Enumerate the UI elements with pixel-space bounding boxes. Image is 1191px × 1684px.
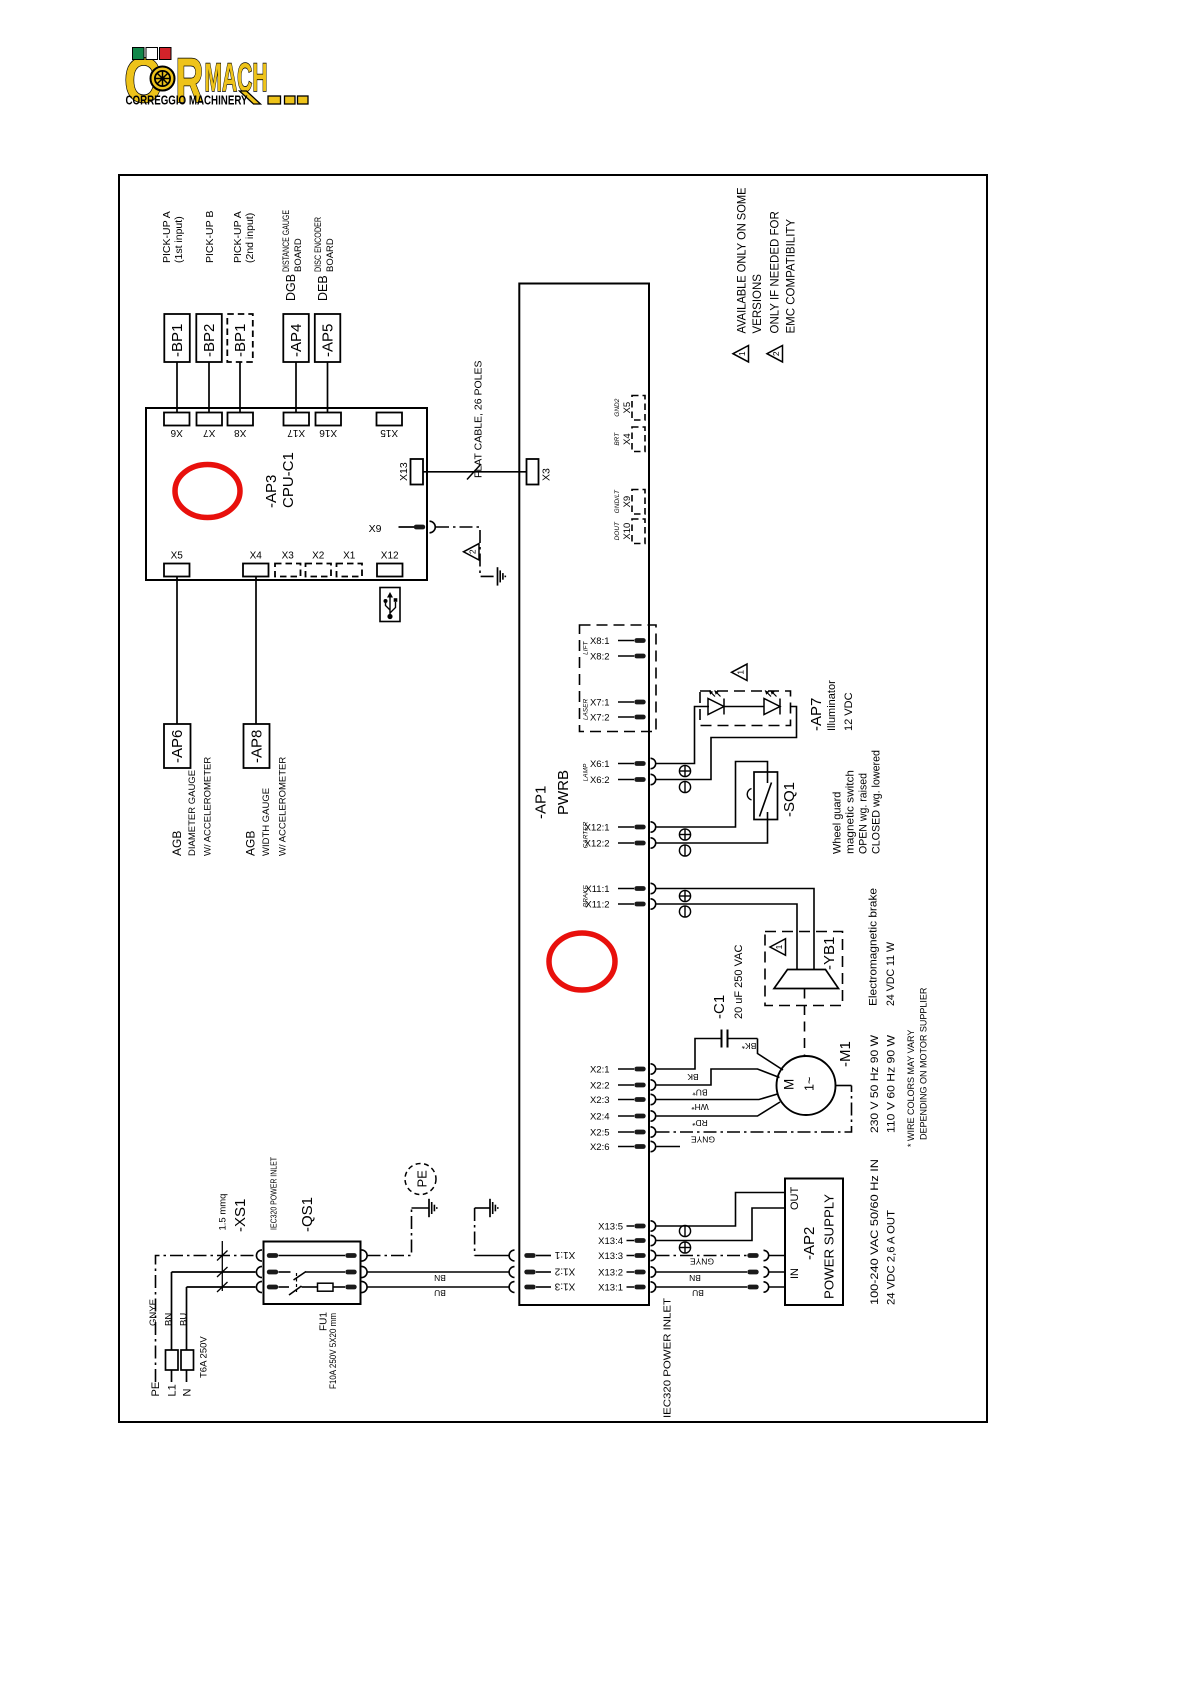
svg-text:24 VDC 2,6 A OUT: 24 VDC 2,6 A OUT <box>886 1210 898 1305</box>
svg-text:PICK-UP B: PICK-UP B <box>204 211 216 263</box>
svg-text:W/ ACCELEROMETER: W/ ACCELEROMETER <box>278 757 289 856</box>
svg-text:-M1: -M1 <box>837 1041 854 1067</box>
svg-text:BU: BU <box>179 1313 190 1326</box>
svg-text:GNYE: GNYE <box>148 1299 159 1326</box>
svg-text:PE: PE <box>150 1382 162 1397</box>
svg-text:DOUT: DOUT <box>614 521 621 540</box>
svg-text:PWRB: PWRB <box>555 770 572 815</box>
svg-text:X2:4: X2:4 <box>590 1111 610 1122</box>
svg-text:DISTANCE GAUGE: DISTANCE GAUGE <box>281 210 292 272</box>
svg-text:-AP7: -AP7 <box>808 698 825 731</box>
svg-text:LIFT: LIFT <box>582 640 589 654</box>
svg-text:-BP1: -BP1 <box>232 324 249 357</box>
svg-text:GNYE: GNYE <box>691 1134 715 1144</box>
svg-text:X12: X12 <box>381 551 399 562</box>
svg-text:X1:3: X1:3 <box>554 1280 575 1291</box>
svg-text:X9: X9 <box>369 523 382 535</box>
svg-text:BOARD: BOARD <box>293 238 304 272</box>
svg-text:BU: BU <box>692 1288 704 1298</box>
svg-text:(2nd input): (2nd input) <box>244 213 256 263</box>
svg-text:-AP8: -AP8 <box>249 730 266 763</box>
svg-text:BK*: BK* <box>741 1041 756 1051</box>
svg-text:magnetic switch: magnetic switch <box>845 770 857 854</box>
svg-text:X6: X6 <box>170 427 183 438</box>
svg-text:X7:2: X7:2 <box>590 712 610 723</box>
svg-text:2: 2 <box>467 549 477 554</box>
svg-text:IEC320 POWER INLET: IEC320 POWER INLET <box>663 1298 674 1418</box>
svg-text:F10A 250V 5X20 mm: F10A 250V 5X20 mm <box>328 1313 338 1389</box>
svg-text:-BP1: -BP1 <box>169 324 186 357</box>
svg-text:IN: IN <box>789 1268 801 1279</box>
svg-text:POWER SUPPLY: POWER SUPPLY <box>822 1194 837 1299</box>
svg-text:-C1: -C1 <box>711 995 728 1019</box>
svg-text:EMC COMPATIBILITY: EMC COMPATIBILITY <box>786 219 798 334</box>
svg-text:BN: BN <box>689 1273 701 1283</box>
svg-text:X7: X7 <box>203 427 216 438</box>
svg-text:1.5 mmq: 1.5 mmq <box>218 1194 229 1231</box>
svg-text:2: 2 <box>771 351 781 356</box>
svg-text:1: 1 <box>737 351 747 356</box>
svg-text:X13:5: X13:5 <box>598 1221 623 1232</box>
svg-text:DEB: DEB <box>316 275 330 301</box>
svg-text:(1st input): (1st input) <box>173 216 185 263</box>
svg-text:GND/LT: GND/LT <box>614 489 621 513</box>
svg-text:X1:2: X1:2 <box>554 1265 575 1276</box>
svg-text:M: M <box>782 1079 797 1090</box>
svg-text:BU: BU <box>434 1288 446 1298</box>
svg-text:X5: X5 <box>622 402 633 414</box>
svg-text:AVAILABLE ONLY ON SOME: AVAILABLE ONLY ON SOME <box>737 187 749 333</box>
svg-text:X4: X4 <box>622 433 633 445</box>
svg-text:DEPENDING ON MOTOR SUPPLIER: DEPENDING ON MOTOR SUPPLIER <box>919 987 929 1140</box>
svg-text:X10: X10 <box>622 523 633 540</box>
svg-text:PICK-UP A: PICK-UP A <box>161 211 173 263</box>
svg-text:X2:1: X2:1 <box>590 1064 610 1075</box>
svg-text:IEC320 POWER INLET: IEC320 POWER INLET <box>270 1157 279 1230</box>
svg-text:-AP4: -AP4 <box>288 324 305 357</box>
svg-text:BK: BK <box>687 1072 699 1082</box>
svg-text:X9: X9 <box>622 496 633 508</box>
svg-text:CORREGGIO MACHINERY: CORREGGIO MACHINERY <box>126 94 249 108</box>
svg-text:OPEN wg. raised: OPEN wg. raised <box>858 773 870 854</box>
svg-text:PICK-UP A: PICK-UP A <box>232 211 244 263</box>
svg-text:DISC ENCODER: DISC ENCODER <box>313 217 324 272</box>
svg-text:-AP6: -AP6 <box>169 730 186 763</box>
svg-text:X5: X5 <box>171 551 184 562</box>
svg-text:-YB1: -YB1 <box>821 937 838 970</box>
svg-text:BRT: BRT <box>614 432 621 446</box>
svg-text:Electromagnetic brake: Electromagnetic brake <box>868 888 880 1006</box>
svg-text:X3: X3 <box>541 468 553 481</box>
svg-text:230 V 50 Hz 90 W: 230 V 50 Hz 90 W <box>869 1034 881 1133</box>
svg-text:100-240 VAC 50/60 Hz IN: 100-240 VAC 50/60 Hz IN <box>869 1159 881 1305</box>
svg-text:X6:2: X6:2 <box>590 775 610 786</box>
svg-text:* WIRE COLORS MAY VARY: * WIRE COLORS MAY VARY <box>906 1030 916 1147</box>
svg-text:X1: X1 <box>343 551 356 562</box>
svg-text:24 VDC 11 W: 24 VDC 11 W <box>885 941 897 1006</box>
svg-text:X7:1: X7:1 <box>590 697 610 708</box>
svg-text:BRAKE: BRAKE <box>582 885 589 908</box>
svg-text:BN: BN <box>434 1273 446 1283</box>
svg-text:X13:1: X13:1 <box>598 1282 623 1293</box>
svg-text:-AP3: -AP3 <box>263 475 280 508</box>
svg-text:DIAMETER GAUGE: DIAMETER GAUGE <box>187 770 198 856</box>
svg-text:GNYE: GNYE <box>690 1257 714 1267</box>
svg-text:X8:1: X8:1 <box>590 636 610 647</box>
svg-text:X2:3: X2:3 <box>590 1095 610 1106</box>
svg-text:WH*: WH* <box>691 1102 709 1112</box>
svg-text:12 VDC: 12 VDC <box>843 692 855 731</box>
svg-text:Illuminator: Illuminator <box>826 680 838 731</box>
svg-text:Wheel guard: Wheel guard <box>832 792 844 854</box>
svg-text:-XS1: -XS1 <box>232 1199 249 1232</box>
svg-text:LASER: LASER <box>582 699 589 721</box>
svg-text:OUT: OUT <box>789 1187 801 1211</box>
svg-text:X8:2: X8:2 <box>590 651 610 662</box>
svg-text:X2:2: X2:2 <box>590 1080 610 1091</box>
svg-text:CARTER: CARTER <box>582 821 589 848</box>
svg-text:FLAT CABLE, 26 POLES: FLAT CABLE, 26 POLES <box>473 361 485 479</box>
svg-text:-AP2: -AP2 <box>801 1227 818 1260</box>
svg-text:X3: X3 <box>282 551 295 562</box>
svg-text:X2:5: X2:5 <box>590 1127 610 1138</box>
svg-text:T6A 250V: T6A 250V <box>199 1336 210 1378</box>
svg-text:LAMP: LAMP <box>582 763 589 781</box>
svg-text:X2:6: X2:6 <box>590 1142 610 1153</box>
svg-text:CPU-C1: CPU-C1 <box>280 452 297 508</box>
svg-text:PE: PE <box>415 1170 430 1188</box>
svg-text:-BP2: -BP2 <box>201 324 218 357</box>
svg-text:AGB: AGB <box>170 831 184 856</box>
svg-text:X2: X2 <box>312 551 325 562</box>
svg-text:X1:1: X1:1 <box>554 1249 575 1260</box>
svg-text:DGB: DGB <box>284 274 298 301</box>
svg-text:X17: X17 <box>287 427 305 438</box>
svg-text:N: N <box>182 1389 194 1397</box>
svg-text:X8: X8 <box>234 427 247 438</box>
svg-text:X4: X4 <box>250 551 263 562</box>
svg-text:ONLY IF NEEDED FOR: ONLY IF NEEDED FOR <box>770 211 782 333</box>
svg-text:WIDTH GAUGE: WIDTH GAUGE <box>261 788 272 856</box>
svg-text:RD*: RD* <box>692 1118 708 1128</box>
svg-text:-SQ1: -SQ1 <box>781 782 798 817</box>
svg-text:-AP5: -AP5 <box>320 324 337 357</box>
svg-text:X15: X15 <box>380 427 398 438</box>
svg-text:-QS1: -QS1 <box>299 1197 316 1232</box>
svg-text:-AP1: -AP1 <box>533 786 550 819</box>
svg-text:1: 1 <box>774 944 784 949</box>
svg-text:1: 1 <box>735 670 745 675</box>
svg-text:VERSIONS: VERSIONS <box>752 274 764 334</box>
svg-text:110 V 60 Hz 90 W: 110 V 60 Hz 90 W <box>886 1034 898 1133</box>
svg-text:BU*: BU* <box>692 1087 708 1097</box>
svg-text:1~: 1~ <box>803 1077 817 1091</box>
svg-text:W/ ACCELEROMETER: W/ ACCELEROMETER <box>203 757 214 856</box>
svg-text:20 uF 250 VAC: 20 uF 250 VAC <box>733 945 745 1019</box>
svg-text:BOARD: BOARD <box>325 238 336 272</box>
svg-text:BN: BN <box>164 1313 175 1326</box>
svg-text:CLOSED wg. lowered: CLOSED wg. lowered <box>871 750 883 854</box>
svg-text:X16: X16 <box>319 427 337 438</box>
svg-text:X13:2: X13:2 <box>598 1267 623 1278</box>
svg-text:X6:1: X6:1 <box>590 759 610 770</box>
svg-text:X13:3: X13:3 <box>598 1251 623 1262</box>
svg-text:X13:4: X13:4 <box>598 1236 623 1247</box>
svg-text:GND2: GND2 <box>614 398 621 416</box>
svg-text:AGB: AGB <box>244 831 258 856</box>
svg-text:L1: L1 <box>167 1384 179 1396</box>
svg-text:X13: X13 <box>398 462 410 481</box>
